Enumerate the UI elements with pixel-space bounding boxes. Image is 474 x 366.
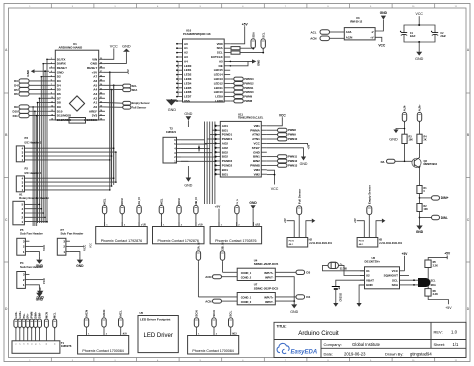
svg-text:PW: PW: [178, 62, 180, 65]
svg-text:4B.1: 4B.1: [289, 243, 294, 246]
svg-text:Rotary Encoder Header: Rotary Encoder Header: [19, 196, 49, 200]
svg-text:GND: GND: [184, 112, 192, 116]
svg-text:5V+: 5V+: [26, 313, 30, 318]
svg-text:CR2032: CR2032: [341, 292, 343, 301]
svg-text:gtingstad94: gtingstad94: [410, 351, 432, 356]
svg-text:Phoenix Contact 1700084: Phoenix Contact 1700084: [192, 349, 233, 353]
svg-text:PCA9685PW/Q900 118: PCA9685PW/Q900 118: [183, 32, 211, 36]
svg-text:PWM8: PWM8: [288, 128, 296, 132]
svg-text:LED13: LED13: [214, 77, 223, 81]
svg-text:VCC: VCC: [279, 113, 287, 117]
svg-text:T1: T1: [61, 341, 65, 345]
svg-text:COND_2: COND_2: [241, 300, 252, 304]
svg-text:LED12: LED12: [214, 81, 223, 85]
svg-text:BIN2: BIN2: [253, 159, 260, 163]
svg-text:IRM-30-12: IRM-30-12: [350, 20, 363, 24]
svg-text:GND: GND: [197, 145, 201, 151]
svg-text:VBAT: VBAT: [366, 278, 374, 282]
svg-text:LED14: LED14: [214, 73, 223, 77]
svg-text:EXTCLK: EXTCLK: [211, 55, 223, 59]
svg-text:INPUT-: INPUT-: [265, 276, 274, 280]
svg-text:INPUT+: INPUT+: [264, 296, 274, 300]
svg-text:MCN: MCN: [85, 310, 89, 317]
svg-text:VCC: VCC: [110, 44, 118, 48]
svg-text:PD.N: PD.N: [359, 240, 365, 242]
svg-text:PGND2: PGND2: [222, 159, 233, 163]
svg-text:PW: PW: [178, 66, 180, 69]
svg-text:COND_1: COND_1: [241, 271, 252, 275]
svg-text:VCC: VCC: [392, 269, 399, 273]
svg-text:10K: 10K: [409, 138, 414, 141]
svg-text:BIN1: BIN1: [253, 155, 260, 159]
svg-text:MCN: MCN: [44, 312, 48, 318]
svg-text:TITLE:: TITLE:: [277, 324, 287, 328]
svg-text:SCL: SCL: [262, 32, 266, 38]
svg-text:PWMA: PWMA: [250, 128, 260, 132]
svg-text:PWM12: PWM12: [244, 81, 254, 85]
svg-text:BO1: BO1: [222, 168, 229, 172]
svg-text:INPUT-: INPUT-: [265, 300, 274, 304]
svg-text:+5V: +5V: [402, 252, 409, 256]
svg-text:VCC: VCC: [271, 187, 279, 191]
svg-text:Arduino Circuit: Arduino Circuit: [298, 330, 339, 337]
svg-text:PWM: PWM: [30, 312, 34, 318]
svg-text:PWM9: PWM9: [244, 95, 252, 99]
svg-text:GND: GND: [37, 295, 45, 299]
svg-text:U3: U3: [356, 16, 360, 20]
svg-text:ACN: ACN: [205, 275, 211, 279]
svg-text:P3: P3: [25, 136, 29, 140]
svg-text:PWM10: PWM10: [244, 90, 254, 94]
svg-text:6: 6: [35, 344, 37, 345]
svg-text:AUX+: AUX+: [18, 311, 22, 318]
svg-text:5V_N: 5V_N: [237, 199, 239, 205]
svg-text:EasyEDA: EasyEDA: [291, 349, 318, 355]
svg-text:PWM13: PWM13: [244, 77, 254, 81]
svg-text:ACN: ACN: [310, 37, 316, 41]
svg-text:+5V: +5V: [445, 306, 452, 310]
svg-text:D3: D3: [306, 271, 310, 275]
svg-text:DIM+: DIM+: [34, 311, 38, 318]
svg-text:U10: U10: [186, 29, 192, 33]
svg-text:MCO: MCO: [102, 309, 106, 317]
svg-text:Sub Fan Header: Sub Fan Header: [61, 232, 85, 236]
svg-text:MCL: MCL: [159, 198, 163, 204]
svg-text:Sheet:: Sheet:: [434, 342, 446, 347]
svg-text:H1: H1: [19, 192, 23, 196]
svg-text:22uF: 22uF: [410, 35, 416, 38]
svg-text:22uF: 22uF: [440, 35, 446, 38]
svg-text:SCL: SCL: [431, 279, 436, 282]
svg-text:4: 4: [27, 344, 30, 345]
svg-text:MCU: MCU: [177, 198, 181, 204]
svg-text:2K: 2K: [424, 138, 427, 141]
svg-text:LED5: LED5: [184, 86, 192, 90]
svg-text:A5: A5: [219, 59, 223, 63]
svg-text:+5V: +5V: [242, 22, 249, 26]
svg-text:GND: GND: [168, 108, 177, 112]
svg-text:ACL: ACL: [311, 30, 317, 34]
svg-text:Phoenix Contact 1792876: Phoenix Contact 1792876: [101, 239, 142, 243]
svg-text:D11: D11: [13, 114, 19, 118]
svg-text:PWM8: PWM8: [244, 99, 252, 103]
svg-text:SCL: SCL: [229, 311, 233, 317]
svg-text:1: 1: [16, 344, 18, 345]
svg-text:PW: PW: [178, 71, 180, 74]
svg-text:X1: X1: [366, 269, 370, 273]
svg-text:GND: GND: [253, 150, 261, 154]
svg-text:PWM9: PWM9: [288, 133, 296, 137]
svg-text:U12: U12: [256, 224, 261, 227]
svg-text:LED15: LED15: [214, 68, 223, 72]
svg-text:5: 5: [32, 344, 34, 345]
svg-text:A4: A4: [184, 59, 188, 63]
svg-text:+5V: +5V: [215, 205, 220, 209]
svg-text:A1: A1: [184, 46, 188, 50]
svg-text:Sub Fan Header: Sub Fan Header: [20, 232, 44, 236]
svg-text:Phoenix Contact 1792876: Phoenix Contact 1792876: [158, 239, 199, 243]
svg-text:VCC: VCC: [83, 244, 87, 251]
svg-text:ATN2: ATN2: [252, 133, 260, 137]
svg-text:2B_N: 2B_N: [194, 197, 198, 204]
svg-text:T2: T2: [170, 127, 174, 131]
svg-text:SDA: SDA: [252, 32, 256, 38]
svg-text:SDA: SDA: [431, 284, 436, 287]
svg-text:LED3: LED3: [184, 77, 192, 81]
svg-text:PWM12: PWM12: [288, 159, 298, 163]
svg-text:Phoenix Contact 1700084: Phoenix Contact 1700084: [82, 349, 123, 353]
svg-text:Empty Sensor: Empty Sensor: [132, 101, 150, 105]
svg-text:ATN1: ATN1: [252, 137, 260, 141]
svg-text:-V: -V: [371, 30, 374, 34]
svg-text:SDA: SDA: [217, 46, 224, 50]
svg-text:LED11: LED11: [214, 86, 223, 90]
svg-text:A0: A0: [184, 42, 188, 46]
svg-text:2B_N: 2B_N: [221, 243, 225, 250]
svg-text:PW: PW: [178, 84, 180, 87]
svg-text:SCL: SCL: [132, 84, 138, 88]
svg-text:10K: 10K: [424, 208, 429, 211]
svg-text:3: 3: [24, 344, 26, 345]
svg-text:GND: GND: [300, 162, 308, 166]
svg-text:I2C Header 1: I2C Header 1: [25, 171, 42, 175]
svg-text:SQW/OUT: SQW/OUT: [384, 274, 398, 278]
svg-text:U5: U5: [140, 311, 144, 315]
svg-text:VCC: VCC: [42, 244, 46, 251]
svg-text:SCL: SCL: [392, 278, 398, 282]
svg-text:7: 7: [39, 344, 41, 345]
svg-text:PW: PW: [178, 79, 180, 82]
svg-text:STBY: STBY: [252, 146, 260, 150]
svg-text:LED9: LED9: [215, 95, 223, 99]
svg-text:PWM11: PWM11: [244, 86, 254, 90]
svg-text:PW: PW: [178, 88, 180, 91]
svg-text:D4: D4: [306, 295, 310, 299]
svg-text:AO1: AO1: [222, 124, 229, 128]
svg-text:PD.N: PD.N: [289, 240, 295, 242]
svg-text:LED10: LED10: [214, 90, 223, 94]
svg-text:SDMC-202P-DC5: SDMC-202P-DC5: [254, 287, 279, 291]
svg-text:LED6: LED6: [184, 90, 192, 94]
svg-text:+5V: +5V: [306, 144, 310, 149]
svg-text:SCL: SCL: [217, 51, 223, 55]
svg-text:VCC: VCC: [416, 12, 424, 16]
svg-text:VDD: VDD: [217, 42, 223, 46]
svg-text:LED0: LED0: [184, 64, 192, 68]
svg-text:COND_2: COND_2: [241, 276, 252, 280]
svg-text:X2: X2: [366, 274, 370, 278]
svg-text:+5V: +5V: [283, 218, 287, 223]
svg-text:ARDUINO NANO: ARDUINO NANO: [59, 46, 83, 50]
svg-text:GND: GND: [76, 264, 84, 268]
svg-text:Sub Fan Header: Sub Fan Header: [20, 265, 44, 269]
svg-text:BO2: BO2: [222, 155, 229, 159]
svg-text:GND: GND: [380, 11, 388, 15]
svg-text:VCC: VCC: [42, 277, 46, 284]
svg-text:COND_1: COND_1: [241, 296, 252, 300]
svg-text:+5V: +5V: [444, 252, 451, 256]
svg-text:PGND1: PGND1: [222, 133, 233, 137]
svg-text:Full Sensor: Full Sensor: [298, 188, 302, 204]
svg-text:2: 2: [20, 344, 22, 345]
svg-text:DIM-: DIM-: [38, 312, 42, 318]
svg-text:+V: +V: [370, 35, 374, 39]
svg-text:BO1: BO1: [222, 128, 229, 132]
svg-text:SDA: SDA: [392, 283, 399, 287]
svg-text:Phoenix Contact 1792876: Phoenix Contact 1792876: [215, 239, 256, 243]
svg-text:A3: A3: [184, 55, 188, 59]
svg-text:2.211-0311-0021-001: 2.211-0311-0021-001: [379, 242, 402, 245]
svg-text:P2: P2: [25, 166, 29, 170]
svg-text:LED1: LED1: [184, 68, 192, 72]
svg-text:2019-06-23: 2019-06-23: [344, 351, 366, 356]
svg-text:REV:: REV:: [434, 329, 443, 334]
svg-text:LED Driver Footprint: LED Driver Footprint: [140, 318, 170, 322]
svg-text:LED7: LED7: [184, 95, 192, 99]
svg-text:MCL: MCL: [103, 198, 107, 204]
svg-text:LED4: LED4: [184, 81, 192, 85]
svg-text:AO2: AO2: [222, 142, 229, 146]
svg-text:GND: GND: [249, 201, 257, 205]
svg-text:SDA: SDA: [132, 88, 138, 92]
svg-text:Drawn By:: Drawn By:: [385, 351, 403, 356]
svg-text:I2C Header 2: I2C Header 2: [25, 141, 42, 145]
svg-text:PWM13: PWM13: [288, 163, 298, 167]
svg-text:LED Driver: LED Driver: [144, 333, 173, 339]
svg-text:DS1307ZN+: DS1307ZN+: [365, 259, 381, 263]
svg-text:AUX-: AUX-: [14, 312, 18, 318]
svg-text:GND: GND: [415, 57, 424, 61]
svg-text:SCO: SCO: [212, 310, 216, 317]
svg-text:VM3: VM3: [254, 168, 261, 172]
svg-text:2A_N: 2A_N: [137, 197, 141, 204]
svg-text:PWM10: PWM10: [288, 137, 298, 141]
svg-text:1985276: 1985276: [61, 344, 72, 348]
svg-text:TB6612FNG/O,C,8,EL: TB6612FNG/O,C,8,EL: [238, 117, 264, 120]
svg-text:BO2: BO2: [222, 150, 229, 154]
svg-text:GND: GND: [257, 60, 261, 66]
svg-text:PWM11: PWM11: [288, 155, 298, 159]
svg-text:GND: GND: [366, 283, 374, 287]
svg-text:PW: PW: [178, 75, 180, 78]
svg-text:GND: GND: [122, 44, 131, 48]
svg-text:MCL: MCL: [53, 312, 57, 318]
svg-text:GND: GND: [389, 138, 398, 142]
svg-text:5V+: 5V+: [22, 313, 26, 318]
svg-text:Company:: Company:: [324, 342, 342, 347]
svg-text:OE: OE: [219, 64, 223, 68]
svg-text:Q2: Q2: [424, 159, 428, 163]
svg-text:DIM-: DIM-: [441, 216, 448, 220]
svg-text:AUX+: AUX+: [417, 104, 421, 111]
svg-text:PWMB: PWMB: [250, 164, 260, 168]
svg-text:2.211-0311-0021-001: 2.211-0311-0021-001: [309, 242, 332, 245]
svg-text:GND: GND: [416, 230, 424, 234]
svg-text:2.2K: 2.2K: [433, 265, 438, 268]
svg-text:PGND2: PGND2: [222, 164, 233, 168]
svg-text:GND: GND: [184, 184, 192, 188]
svg-text:AC/L: AC/L: [346, 30, 353, 34]
svg-text:9: 9: [55, 344, 57, 345]
svg-text:AUX-: AUX-: [403, 105, 407, 111]
svg-text:A2: A2: [184, 51, 188, 55]
svg-text:VSS: VSS: [184, 99, 190, 103]
svg-text:+5V: +5V: [126, 69, 130, 74]
svg-text:1.0: 1.0: [451, 329, 458, 334]
svg-text:1/1: 1/1: [453, 342, 459, 347]
svg-text:4B.1: 4B.1: [359, 243, 364, 246]
svg-text:MCU: MCU: [120, 198, 124, 204]
svg-text:SDMC-202P-DC5: SDMC-202P-DC5: [254, 262, 279, 266]
svg-text:VCC: VCC: [253, 142, 260, 146]
svg-text:VM1: VM1: [254, 124, 261, 128]
svg-text:PW: PW: [178, 93, 180, 96]
svg-text:AO2: AO2: [222, 146, 229, 150]
svg-text:LED8: LED8: [215, 99, 223, 103]
svg-text:Date:: Date:: [324, 351, 334, 356]
svg-text:Global Institute: Global Institute: [352, 342, 381, 347]
svg-text:+5V: +5V: [353, 218, 357, 223]
svg-text:Full Sensor: Full Sensor: [132, 105, 147, 109]
svg-text:VCC: VCC: [378, 43, 386, 47]
svg-text:Empty Sensor: Empty Sensor: [368, 184, 372, 204]
svg-text:INPUT+: INPUT+: [264, 271, 274, 275]
svg-text:MCL: MCL: [119, 310, 123, 317]
svg-text:D/L: D/L: [381, 160, 386, 164]
svg-text:PGND1: PGND1: [222, 137, 233, 141]
svg-text:D13/SCK: D13/SCK: [84, 118, 98, 122]
svg-text:AC/N: AC/N: [346, 35, 353, 39]
svg-text:VM2: VM2: [254, 172, 261, 176]
svg-text:VCC: VCC: [90, 243, 93, 248]
svg-text:2.2K: 2.2K: [433, 293, 438, 296]
svg-text:2A_N: 2A_N: [197, 243, 201, 250]
svg-text:ACN: ACN: [205, 300, 211, 304]
svg-text:GND: GND: [26, 69, 30, 77]
svg-text:D6: D6: [14, 92, 18, 96]
svg-text:SCN: SCN: [195, 310, 199, 316]
svg-text:8: 8: [46, 344, 48, 345]
svg-text:1985221: 1985221: [166, 130, 177, 134]
svg-text:GND: GND: [290, 310, 298, 314]
svg-text:BO1: BO1: [222, 172, 229, 176]
svg-text:DIM+: DIM+: [441, 196, 449, 200]
svg-text:MMBT3904: MMBT3904: [424, 162, 438, 166]
svg-text:LED2: LED2: [184, 73, 192, 77]
